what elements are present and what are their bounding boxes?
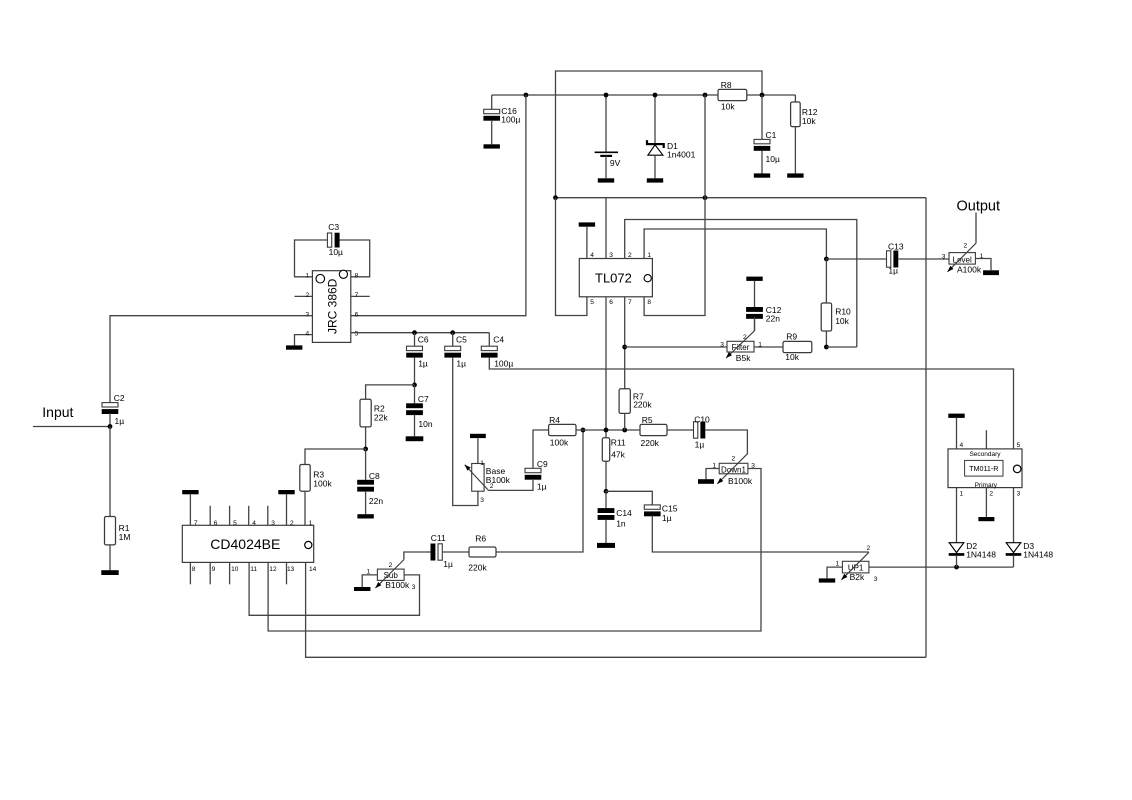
wire Sub wiper to C11 [404,552,431,560]
resistor R3 100k [300,465,333,526]
svg-text:B100k: B100k [385,580,410,590]
wire power rail from C16 to R8 [492,94,718,96]
capacitor C10 1µ [694,414,711,449]
node D1 on rail [653,93,658,98]
svg-text:1µ: 1µ [537,481,547,491]
svg-text:1: 1 [480,460,484,467]
svg-text:TM011-R: TM011-R [969,464,998,473]
svg-text:5: 5 [355,330,359,337]
transformer T1 TM011-R [948,442,1022,497]
wire TL072 pin5 loop to bias rail [556,198,587,316]
node C5 tap [450,330,455,335]
svg-text:11: 11 [250,566,257,573]
svg-text:4: 4 [960,442,964,449]
svg-text:B5k: B5k [736,353,751,363]
node diode junction [954,565,959,570]
label Input [42,404,73,420]
svg-text:3: 3 [412,584,416,591]
wire power rail from R8 to R12 [747,94,795,96]
ground at Down1 pin1 [698,479,714,484]
wire supply riser to bias rail [925,198,927,658]
svg-text:1: 1 [836,560,840,567]
svg-text:22n: 22n [369,496,383,506]
wire C9 to R4 [533,430,549,468]
svg-text:10µ: 10µ [329,247,343,257]
ground below battery [598,178,614,182]
op-amp U2 TL072 [579,252,652,306]
wire JRC pin8 boot loop [340,240,370,277]
wire C13 net from node [826,258,886,260]
svg-text:2: 2 [989,490,993,497]
svg-text:1µ: 1µ [456,359,466,369]
wire JRC pin2 stub [295,295,313,297]
wire R6 to R4 output node [496,430,583,552]
svg-text:1n4001: 1n4001 [667,150,696,160]
svg-text:3: 3 [751,463,755,470]
svg-text:C7: C7 [418,394,429,404]
ground above Base pot [470,434,486,464]
resistor R6 220k [468,533,496,572]
svg-text:R8: R8 [721,80,732,90]
capacitor C9 1µ [525,459,548,491]
wire C11 to R6 [443,551,469,553]
svg-text:C15: C15 [662,503,678,513]
ground below R1 [101,570,118,575]
capacitor C14 1n [598,491,632,543]
svg-text:C2: C2 [114,393,125,403]
wire input line [33,426,110,428]
svg-text:10µ: 10µ [766,154,780,164]
svg-text:10k: 10k [721,101,735,111]
wire TL072 pin2 feedback loop [625,220,857,348]
wire UP1 pin3 to diodes [869,566,1014,568]
svg-text:1: 1 [647,252,651,259]
svg-text:1µ: 1µ [888,265,898,275]
resistor R5 220k [640,415,667,448]
wire C15 to Up1 wiper [652,516,869,553]
svg-text:100µ: 100µ [494,359,513,369]
node R11 top tap [604,428,609,433]
wire CD4024 pin4 stub [248,506,250,526]
svg-text:CD4024BE: CD4024BE [210,536,280,552]
svg-text:4: 4 [306,330,310,337]
svg-text:5: 5 [1017,442,1021,449]
svg-text:1: 1 [309,520,313,527]
wire TL072 pin7 down through filter node [624,297,626,389]
wire Level wiper to Output [975,213,977,244]
wire transformer pin2 to ground [985,488,987,517]
svg-text:C11: C11 [431,533,446,543]
wire CD4024 pin8 stub [189,562,191,584]
svg-text:C13: C13 [888,241,904,251]
ground above CD4024 pin7 [182,490,198,525]
node bias rail V+ junction [703,195,708,200]
wire R2 top to C6 junction [366,385,415,399]
ground above transformer pin4 [948,414,964,449]
svg-text:C8: C8 [369,471,380,481]
node R10 top / C13 net [824,257,829,262]
svg-text:3: 3 [271,520,275,527]
node R4 output / R6 riser [581,428,586,433]
wire Down1 pin1 to ground [706,469,719,480]
svg-text:10k: 10k [802,116,816,126]
wire CD4024 pin6 stub [209,506,211,526]
svg-text:C9: C9 [537,459,548,469]
svg-text:1M: 1M [119,532,131,542]
svg-text:B100k: B100k [486,475,511,485]
wire JRC pin7 stub [351,295,370,297]
capacitor C4 100µ [481,333,513,369]
wire C5 to Base pot pin3 [453,358,478,506]
svg-text:1µ: 1µ [115,416,125,426]
svg-text:7: 7 [355,292,359,299]
svg-text:3: 3 [306,311,310,318]
svg-text:3: 3 [720,341,724,348]
svg-text:C1: C1 [766,130,777,140]
label Output [957,199,1001,215]
wire Base wiper to C9 [489,480,534,490]
capacitor C2 1µ [102,393,125,427]
ground at Sub pin1 [354,587,370,591]
node rail to op-amp V+ branch [703,93,708,98]
svg-text:C6: C6 [418,335,429,345]
svg-text:220k: 220k [633,400,652,410]
wire Sub pin1 to ground [362,575,377,587]
node on rail at JRC-386 Vcc branch [524,93,529,98]
svg-text:100µ: 100µ [501,114,520,124]
svg-text:1µ: 1µ [418,359,428,369]
node battery on rail [604,93,609,98]
svg-text:TL072: TL072 [595,270,632,285]
wire C13 to Level pot [898,258,949,260]
wire bridge over R8 via top [556,71,763,198]
svg-text:1N4148: 1N4148 [966,549,996,559]
resistor R9 10k [783,331,812,362]
svg-text:22n: 22n [766,314,780,324]
node bias rail left junction [553,195,558,200]
capacitor C8 22n [357,449,383,514]
wire R5 to C10 [667,429,694,431]
wire bias distribution rail [556,197,927,199]
node R9/R10 junction [824,345,829,350]
svg-text:6: 6 [355,311,359,318]
svg-text:B2k: B2k [850,572,865,582]
svg-text:R5: R5 [642,415,653,425]
diode D3 1N4148 [1006,488,1054,567]
ground above TL072 pin4 [579,222,595,258]
svg-text:1µ: 1µ [443,559,453,569]
svg-text:1: 1 [306,273,310,280]
wire CD4024 pin14 to supply riser [306,562,926,657]
svg-text:5: 5 [590,299,594,306]
potentiometer Down1 B100k [712,453,755,486]
svg-text:Primary: Primary [975,482,998,489]
svg-text:R6: R6 [475,533,486,543]
wire CD4024 pin9 stub [209,562,211,584]
capacitor C15 1µ [644,503,678,523]
svg-text:3: 3 [942,254,946,261]
svg-text:100k: 100k [313,478,332,488]
resistor R8 10k [718,80,747,111]
ground at Level pin1 [983,270,999,275]
svg-text:2: 2 [732,455,736,462]
svg-text:10: 10 [231,566,239,573]
svg-text:1: 1 [960,490,964,497]
svg-text:C10: C10 [694,414,710,424]
resistor R4 100k [549,415,576,447]
ground below C8 [357,514,373,518]
wire CD4024 pin10 stub [229,562,231,584]
wire filter net to Filter pot [625,346,727,348]
svg-text:220k: 220k [468,562,487,572]
svg-text:22k: 22k [374,413,388,423]
wire Filter pin1 to R9 [754,346,783,348]
svg-text:8: 8 [647,299,651,306]
capacitor C11 1µ [431,533,454,569]
svg-text:10k: 10k [785,352,799,362]
svg-text:12: 12 [269,566,277,573]
svg-text:B100k: B100k [728,476,753,486]
svg-text:5: 5 [233,520,237,527]
wire JRC pin1 boot loop [295,240,328,277]
node C6/C7/R2 junction [412,383,417,388]
ground below C14 [597,543,615,548]
svg-text:8: 8 [192,566,196,573]
ground below C7 [406,436,424,441]
svg-text:R9: R9 [786,331,797,341]
capacitor C1 10µ [754,95,780,173]
wire JRC pin3 input wire [110,316,312,403]
capacitor C13 1µ [887,241,904,275]
potentiometer Filter B5k [720,317,762,363]
svg-text:9: 9 [212,566,216,573]
ground below R12 [787,173,803,177]
svg-text:R10: R10 [835,307,851,317]
wire TL072 pin3 from bias rail [605,198,607,259]
resistor R10 10k [821,259,851,347]
svg-text:JRC 386D: JRC 386D [325,278,339,334]
svg-text:1n: 1n [616,518,626,528]
capacitor C12 22n [746,305,782,331]
svg-text:Output: Output [957,199,1001,215]
svg-text:4: 4 [252,520,256,527]
svg-text:3: 3 [874,576,878,583]
svg-text:C5: C5 [456,335,467,345]
ground below C16 [484,144,500,148]
wire C10 to Down1 wiper [705,430,747,453]
svg-text:6: 6 [214,520,218,527]
svg-text:14: 14 [309,566,317,573]
node input junction [108,424,113,429]
svg-text:Input: Input [42,404,73,420]
wire junction to C15 [606,491,652,505]
wire TL072 pin8 to 9V rail [644,95,705,316]
node R2/R3/C8 junction [363,447,368,452]
wire input node to R1 [109,427,111,517]
wire JRC pin6 supply wire [351,95,526,316]
svg-text:1N4148: 1N4148 [1023,549,1053,559]
resistor R2 22k [360,399,388,449]
svg-text:47k: 47k [611,449,625,459]
svg-text:3: 3 [480,497,484,504]
wire CD4024 pin13 stub [286,562,288,584]
svg-text:100k: 100k [550,437,569,447]
capacitor C16 100µ [483,95,520,144]
svg-text:3: 3 [1017,490,1021,497]
wire transformer centre tap stub [985,430,987,449]
svg-text:2: 2 [964,242,968,249]
ground above C12 [746,277,762,307]
svg-text:C14: C14 [616,508,632,518]
amplifier U1 JRC 386D [306,270,359,342]
svg-text:2: 2 [628,252,632,259]
ground below C1 [754,173,770,177]
svg-text:3: 3 [609,252,613,259]
battery BT1 9V [595,95,621,178]
ground above CD4024 pin2 [278,490,294,525]
node R7 bottom tap [622,428,627,433]
resistor R11 47k [602,438,626,492]
ground at JRC pin4 [286,345,302,349]
wire R9 node to feedback riser [826,346,856,348]
svg-text:A100k: A100k [957,264,982,274]
svg-text:2: 2 [867,545,871,552]
svg-text:2: 2 [290,520,294,527]
node rail after R8 at C1 [760,93,765,98]
svg-text:C3: C3 [328,222,339,232]
wire CD4024 pin12 to Down1 pot [268,469,761,632]
svg-text:R4: R4 [549,415,560,425]
ground at transformer pin2 [978,517,994,521]
wire TL072 pin6 down to R11 [605,297,607,439]
wire CD4024 pin5 stub [229,506,231,526]
resistor R1 1M [105,517,131,571]
svg-text:9V: 9V [610,158,621,168]
resistor R12 10k [791,95,818,173]
node C6 tap [412,330,417,335]
node R11/C14/C15 junction [604,489,609,494]
svg-text:C4: C4 [493,335,504,345]
svg-text:2: 2 [389,562,393,569]
wire UP1 pin1 to ground [827,567,842,578]
ground at UP1 pin1 [819,578,835,582]
wire JRC pin5 wire [351,332,490,334]
potentiometer Level A100k [942,242,984,274]
svg-text:6: 6 [609,299,613,306]
svg-text:2: 2 [306,292,310,299]
diode D2 1N4148 [949,488,997,567]
wire CD4024 pin3 stub [267,506,269,526]
counter IC U3 CD4024BE [182,520,316,573]
ground below D1 [647,178,663,182]
svg-text:2: 2 [743,334,747,341]
capacitor C6 1µ [406,333,429,385]
potentiometer UP1 B2k [836,545,878,583]
capacitor C7 10n [406,385,433,436]
resistor R7 220k [619,389,652,430]
wire TL072 pin1 to R10/C13 node [644,229,826,259]
svg-text:R11: R11 [611,438,626,448]
svg-text:220k: 220k [641,438,660,448]
svg-text:Secondary: Secondary [969,451,1001,458]
svg-text:4: 4 [590,252,594,259]
capacitor C5 1µ [444,333,467,369]
svg-text:7: 7 [194,520,198,527]
svg-text:10k: 10k [835,316,849,326]
svg-text:13: 13 [287,566,295,573]
wire junction to R3 [305,449,366,465]
wire R4 node segment [576,429,640,431]
svg-text:10n: 10n [418,419,432,429]
svg-text:7: 7 [628,299,632,306]
capacitor C3 10µ [327,222,343,257]
wire JRC pin4 to ground [295,335,313,346]
wire CD4024 pin11 to Sub pot [249,562,419,615]
node filter net left [622,345,627,350]
svg-text:1: 1 [980,253,984,260]
potentiometer Sub B100k [367,560,416,591]
wire C4 to transformer pin5 [489,358,1013,449]
svg-text:8: 8 [355,273,359,280]
svg-text:1µ: 1µ [662,513,672,523]
potentiometer Base B100k [465,460,511,504]
diode D1 1n4001 (zener symbol) [646,95,696,178]
wire Level pin1 to ground [975,259,991,271]
svg-text:1µ: 1µ [695,439,705,449]
